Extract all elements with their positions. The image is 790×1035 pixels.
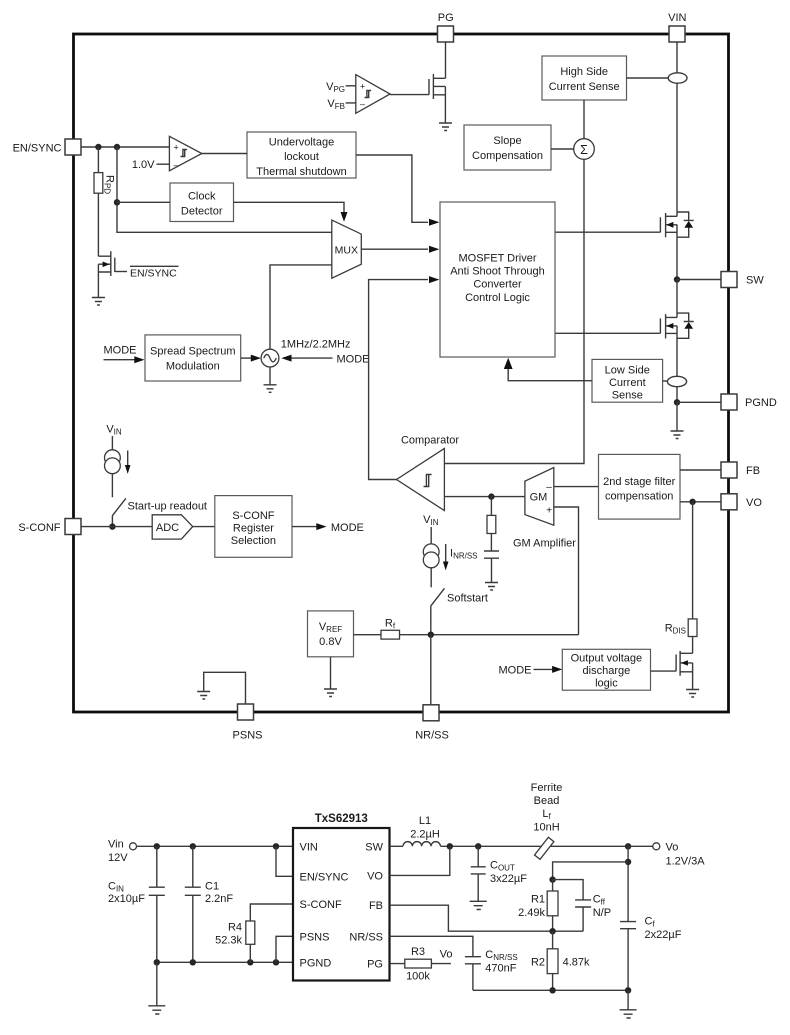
ground power stage: [671, 431, 684, 439]
svg-text:Σ: Σ: [580, 143, 588, 157]
wire GM plus input to softstart node: [554, 507, 579, 635]
capacitor compensation Cc: [484, 551, 499, 583]
svg-text:2.49k: 2.49k: [518, 907, 545, 919]
svg-text:FB: FB: [369, 900, 383, 912]
node SW junction: [674, 276, 680, 282]
capacitor CIN: [149, 846, 165, 962]
resistor R4: [250, 904, 293, 962]
block S-CONF Register Selection: [215, 496, 292, 558]
wire input ground rail: [157, 961, 293, 963]
svg-text:compensation: compensation: [605, 490, 674, 502]
svg-text:–: –: [174, 160, 179, 170]
node VO tie junction: [447, 843, 453, 849]
svg-text:discharge: discharge: [583, 665, 631, 677]
capacitor Cff: [553, 880, 592, 932]
svg-text:2x10µF: 2x10µF: [108, 893, 145, 905]
svg-text:Control Logic: Control Logic: [465, 292, 530, 304]
wire EN/SYNC pin to A2 input: [81, 146, 169, 148]
svg-text:Vin: Vin: [108, 839, 124, 851]
wire EN/SYNC tie to VIN: [276, 846, 293, 876]
wire junction to clock detector: [117, 201, 170, 203]
svg-text:+: +: [546, 505, 552, 516]
wire sense to PGND node: [676, 387, 678, 403]
terminal Vin: [130, 843, 137, 850]
pin FB: [721, 462, 737, 478]
svg-text:PG: PG: [367, 959, 383, 971]
pin NR/SS: [423, 705, 439, 721]
ground below oscillator: [264, 385, 277, 393]
svg-text:3x22µF: 3x22µF: [490, 873, 527, 885]
ferrite bead Lf: [535, 837, 554, 859]
summer node sigma: [574, 139, 595, 160]
node EN/SYNC-bar gate label with overline: [130, 265, 179, 267]
node COUT junction: [475, 843, 481, 849]
switch Softstart: [431, 588, 445, 634]
wire clock detector to MUX select: [234, 202, 345, 212]
svg-text:Vo: Vo: [666, 841, 679, 853]
wire M1 source to ground: [444, 87, 446, 124]
svg-text:S-CONF: S-CONF: [300, 899, 342, 911]
current sense element low side: [667, 376, 686, 386]
wire UVLO output to driver: [356, 155, 428, 222]
wire GM output to A3 input: [444, 496, 525, 498]
svg-text:Current Sense: Current Sense: [549, 81, 620, 93]
wire PGND node to PGND pin: [677, 401, 721, 403]
svg-text:12V: 12V: [108, 852, 128, 864]
svg-text:2.2µH: 2.2µH: [410, 828, 440, 840]
capacitor CNRSS: [390, 936, 481, 990]
svg-text:R4: R4: [228, 922, 242, 934]
wire oscillator to MUX input: [270, 265, 332, 349]
svg-text:SW: SW: [746, 275, 764, 287]
svg-text:S-CONF: S-CONF: [232, 510, 274, 522]
svg-text:10nH: 10nH: [533, 822, 559, 834]
svg-text:L1: L1: [419, 815, 431, 827]
pin PG: [438, 26, 454, 42]
wire junction to NR/SS pin: [430, 635, 432, 705]
wire VO pin tie: [390, 846, 450, 875]
node gnd junction PSNS: [273, 959, 279, 965]
svg-text:–: –: [546, 482, 552, 493]
svg-text:R3: R3: [411, 946, 425, 958]
node VO junction: [689, 499, 695, 505]
block Low Side Current Sense: [592, 359, 663, 402]
wire MODE to oscillator with arrow: [292, 357, 333, 359]
wire PSNS tie to ground rail: [276, 936, 293, 962]
wire 1.0V reference to A2: [157, 163, 170, 165]
svg-text:Slope: Slope: [493, 135, 521, 147]
svg-text:S-CONF: S-CONF: [18, 522, 60, 534]
node CIN junction: [154, 843, 160, 849]
svg-text:Modulation: Modulation: [166, 361, 220, 373]
ground PSNS: [197, 692, 210, 700]
svg-text:EN/SYNC: EN/SYNC: [13, 142, 62, 154]
svg-text:Selection: Selection: [231, 535, 276, 547]
wire Q3 gate stub: [115, 271, 127, 273]
svg-text:Detector: Detector: [181, 206, 223, 218]
wire Vo vertical branch: [627, 846, 629, 990]
wire Q1 gate from driver: [555, 231, 660, 233]
svg-text:PG: PG: [438, 12, 454, 24]
svg-text:C1: C1: [205, 881, 219, 893]
transistor Q4 discharge MOSFET: [676, 651, 693, 676]
wire VIN pin down: [676, 42, 678, 73]
pin S-CONF: [65, 519, 81, 535]
op-amp A1 power-good comparator: [356, 75, 390, 114]
body diode of Q2: [677, 313, 694, 338]
ground output: [620, 1010, 637, 1018]
transistor Q1 high-side MOSFET: [660, 213, 677, 237]
block VREF 0.8V: [308, 611, 354, 657]
svg-text:logic: logic: [595, 677, 618, 689]
node EN junction 1: [95, 144, 101, 150]
wire feedback ground rail: [473, 989, 628, 991]
wire summer to comparator input: [444, 159, 584, 463]
wire L1 to ferrite bead: [440, 845, 628, 847]
svg-text:Comparator: Comparator: [401, 435, 459, 447]
block Slope Compensation: [464, 125, 551, 170]
wire spread spectrum to oscillator: [241, 357, 251, 359]
multiplexer MUX: [332, 220, 362, 278]
current sense element on VIN rail: [668, 73, 687, 83]
wire MODE into spread spectrum block: [104, 359, 135, 361]
wire LS sense to sense element: [663, 380, 668, 382]
svg-text:Ferrite: Ferrite: [531, 782, 563, 794]
node Vo junction: [625, 843, 631, 849]
node R1/Cff top junction: [549, 876, 555, 882]
node FB divider junction: [549, 928, 555, 934]
svg-text:High Side: High Side: [560, 66, 608, 78]
pin PGND: [721, 394, 737, 410]
wire to output ground: [627, 990, 629, 1010]
node EN junction 2: [114, 144, 120, 150]
svg-text:100k: 100k: [406, 971, 430, 983]
pin PSNS: [238, 704, 254, 720]
transistor Q3 sync-detect MOSFET: [98, 251, 114, 276]
capacitor Cf: [620, 922, 636, 929]
pin EN/SYNC: [65, 139, 81, 155]
resistor RDIS: [692, 502, 694, 654]
wire Q4 source to ground: [692, 663, 694, 690]
node Cf gnd junction: [625, 987, 631, 993]
svg-text:Bead: Bead: [534, 795, 560, 807]
svg-text:VO: VO: [367, 870, 383, 882]
resistor Rf: [354, 634, 579, 636]
node gnd junction R4: [247, 959, 253, 965]
wire SW node to SW pin: [677, 279, 721, 281]
node PGND junction: [674, 399, 680, 405]
node NR/SS junction: [428, 632, 434, 638]
transistor M1 power-good NMOS: [429, 74, 445, 99]
ground below VREF: [324, 689, 337, 697]
transistor Q2 low-side MOSFET: [660, 314, 677, 338]
wire 2nd stage filter to FB pin: [680, 469, 721, 471]
inductor L1: [403, 842, 440, 847]
block Clock Detector: [170, 183, 234, 222]
svg-text:4.87k: 4.87k: [563, 957, 590, 969]
svg-text:PGND: PGND: [745, 397, 777, 409]
wire I2 to softstart switch: [430, 568, 432, 588]
wire VREF to ground: [330, 657, 332, 689]
node gnd junction CIN: [154, 959, 160, 965]
block Output voltage discharge logic: [562, 649, 650, 690]
svg-text:470nF: 470nF: [485, 962, 516, 974]
svg-text:lockout: lockout: [284, 151, 319, 163]
block Spread Spectrum Modulation: [145, 335, 241, 381]
svg-text:TxS62913: TxS62913: [315, 813, 368, 825]
switch start-up readout: [112, 498, 126, 526]
wire PG pin to M1 drain: [445, 42, 447, 78]
svg-text:2x22µF: 2x22µF: [645, 929, 682, 941]
wire LS sense to driver with arrow: [508, 369, 592, 381]
svg-text:Converter: Converter: [473, 279, 522, 291]
node clock detector input junction: [114, 199, 120, 205]
svg-text:NR/SS: NR/SS: [415, 730, 449, 742]
op-amp GM error amplifier: [525, 468, 554, 526]
svg-text:1MHz/2.2MHz: 1MHz/2.2MHz: [281, 339, 351, 351]
wire A2 to UVLO block: [202, 153, 247, 155]
wire A1 output to M1 gate: [390, 94, 429, 96]
wire HS sense to VIN sense element: [627, 77, 669, 79]
svg-text:NR/SS: NR/SS: [349, 931, 383, 943]
resistor R2: [552, 931, 554, 990]
wire I1 to startup switch: [111, 474, 113, 498]
wire discharge logic to Q4 gate: [651, 670, 677, 672]
wire SW to L1: [390, 845, 404, 847]
svg-text:R2: R2: [531, 957, 545, 969]
svg-text:Compensation: Compensation: [472, 150, 543, 162]
svg-text:GM: GM: [530, 492, 548, 504]
svg-text:+: +: [174, 143, 179, 153]
wire VIN rail to Q1 drain: [676, 83, 678, 216]
ground input: [148, 1006, 165, 1014]
wire ADC to register block: [193, 526, 215, 528]
wire oscillator to ground: [269, 367, 271, 385]
svg-text:Start-up readout: Start-up readout: [128, 501, 208, 513]
pin SW: [721, 272, 737, 288]
pin VO: [721, 494, 737, 510]
wire Q3 source to ground: [97, 264, 99, 297]
resistor R3: [390, 963, 451, 965]
svg-text:SW: SW: [365, 841, 383, 853]
svg-text:Current: Current: [609, 377, 646, 389]
wire GM minus input to 2nd stage filter: [554, 486, 599, 488]
svg-text:VO: VO: [746, 497, 762, 509]
svg-text:MODE: MODE: [337, 353, 370, 365]
svg-text:+: +: [360, 81, 365, 91]
wire Vin rail: [137, 845, 294, 847]
node R1 feed junction: [625, 859, 631, 865]
block High Side Current Sense: [542, 56, 627, 100]
ground below Q3: [92, 298, 105, 306]
svg-text:2nd stage filter: 2nd stage filter: [603, 476, 675, 488]
svg-text:VIN: VIN: [300, 841, 318, 853]
svg-text:Thermal shutdown: Thermal shutdown: [256, 166, 347, 178]
svg-text:Undervoltage: Undervoltage: [269, 137, 334, 149]
svg-text:MODE: MODE: [499, 665, 532, 677]
svg-text:Sense: Sense: [612, 389, 643, 401]
resistor compensation Rc: [490, 497, 492, 551]
svg-text:–: –: [360, 99, 365, 109]
svg-text:VIN: VIN: [668, 12, 686, 24]
capacitor C1: [185, 846, 201, 962]
svg-text:PSNS: PSNS: [233, 730, 263, 742]
wire 2nd stage filter to VO pin: [680, 501, 721, 503]
svg-text:Register: Register: [233, 522, 274, 534]
svg-text:EN/SYNC: EN/SYNC: [300, 871, 349, 883]
IC boundary box: [74, 34, 729, 712]
wire MODE to discharge logic: [534, 668, 553, 670]
svg-text:Spread Spectrum: Spread Spectrum: [150, 346, 236, 358]
IC TxS62913: [293, 828, 390, 981]
op-amp A2 enable comparator: [169, 136, 201, 171]
wire S-CONF pin to ADC: [81, 526, 152, 528]
ground below M1: [439, 123, 452, 131]
svg-text:MOSFET Driver: MOSFET Driver: [458, 252, 536, 264]
svg-text:2.2nF: 2.2nF: [205, 893, 233, 905]
pin VIN: [669, 26, 685, 42]
svg-text:ADC: ADC: [156, 522, 179, 534]
capacitor COUT: [471, 846, 486, 901]
svg-text:Output voltage: Output voltage: [571, 652, 643, 664]
terminal Vo: [653, 843, 660, 850]
svg-text:Anti Shoot Through: Anti Shoot Through: [450, 266, 545, 278]
node S-CONF junction: [109, 523, 115, 529]
wire MUX output to driver: [361, 248, 428, 250]
wire PSNS pin to ground: [204, 672, 246, 704]
wire register block to MODE: [292, 526, 317, 528]
wire rail to ground symbol: [156, 962, 158, 1006]
svg-text:0.8V: 0.8V: [319, 636, 342, 648]
ground below compensation: [485, 583, 498, 591]
svg-text:1.0V: 1.0V: [132, 159, 155, 171]
svg-text:1.2V/3A: 1.2V/3A: [666, 855, 706, 867]
resistor RPD: [97, 147, 99, 256]
ground below Q4: [686, 690, 699, 698]
svg-text:MODE: MODE: [331, 522, 364, 534]
ground COUT: [470, 901, 487, 909]
node R2 gnd junction: [549, 987, 555, 993]
svg-text:Clock: Clock: [188, 191, 216, 203]
svg-text:Vo: Vo: [440, 949, 453, 961]
svg-text:PGND: PGND: [300, 957, 332, 969]
wire A3 output to driver: [369, 280, 428, 480]
wire slope comp to summer: [551, 148, 574, 150]
wire PGND node to ground: [676, 402, 678, 431]
converter ADC: [152, 515, 193, 539]
node EN junction: [273, 843, 279, 849]
block Undervoltage lockout Thermal shutdown: [247, 132, 356, 178]
node gnd junction C1: [190, 959, 196, 965]
node GM output junction: [488, 493, 494, 499]
svg-text:MODE: MODE: [104, 345, 137, 357]
svg-text:R1: R1: [531, 893, 545, 905]
svg-text:Low Side: Low Side: [605, 364, 650, 376]
svg-text:N/P: N/P: [593, 907, 611, 919]
wire Vo to R1 top: [553, 862, 629, 880]
body diode of Q1: [677, 212, 694, 237]
wire to Vo terminal: [628, 845, 653, 847]
wire Q2 source to sense element: [676, 326, 678, 377]
svg-text:FB: FB: [746, 465, 760, 477]
svg-text:EN/SYNC: EN/SYNC: [130, 268, 177, 280]
wire Q1 source to SW node: [676, 225, 678, 280]
svg-text:MUX: MUX: [335, 245, 358, 257]
wire SW node to Q2 drain: [676, 280, 678, 318]
svg-text:52.3k: 52.3k: [215, 935, 242, 947]
block 2nd stage filter compensation: [599, 454, 681, 519]
svg-text:GM Amplifier: GM Amplifier: [513, 538, 576, 550]
block MOSFET Driver Anti Shoot Through Converter Control Logic: [440, 202, 555, 357]
svg-text:Softstart: Softstart: [447, 593, 488, 605]
wire HS sense to summer: [583, 100, 585, 139]
wire FB network: [390, 905, 584, 931]
node C1 junction: [190, 843, 196, 849]
wire Q2 gate from driver: [555, 332, 660, 334]
resistor R1: [552, 880, 554, 932]
wire EN line down to MUX input: [117, 147, 332, 232]
svg-text:PSNS: PSNS: [300, 931, 330, 943]
op-amp A3 PWM comparator: [397, 448, 445, 510]
oscillator OSC1: [261, 349, 279, 367]
